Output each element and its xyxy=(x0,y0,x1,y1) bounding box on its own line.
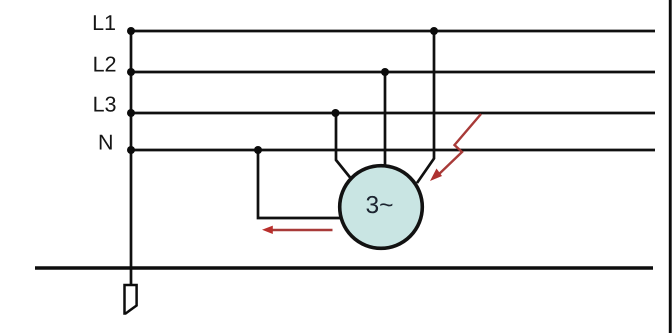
junction dot bus-N xyxy=(127,146,135,154)
label L3 xyxy=(94,96,115,111)
wire N neutral line xyxy=(131,149,655,152)
junction dot L3 tap xyxy=(332,109,340,117)
label L1 xyxy=(94,15,115,30)
junction dot L1 tap xyxy=(430,27,438,35)
fault current return arrow xyxy=(272,229,333,232)
wire L3 drop to motor xyxy=(336,113,351,178)
ground line xyxy=(35,266,653,269)
earth electrode xyxy=(125,285,137,314)
junction dot bus-L2 xyxy=(127,68,135,76)
motor label 3~ xyxy=(366,196,392,213)
label N xyxy=(100,135,112,150)
junction dot bus-L1 xyxy=(127,27,135,35)
wire L2 phase line xyxy=(131,71,655,74)
wire L1 drop to motor xyxy=(417,31,434,183)
junction dot L2 tap xyxy=(381,68,389,76)
wire L2 drop to motor xyxy=(384,72,387,167)
junction dot N tap xyxy=(254,146,262,154)
wire N drop and run to motor xyxy=(258,150,342,218)
motor M1 three-phase xyxy=(340,166,423,249)
wire L3 phase line xyxy=(131,112,655,115)
wire L1 phase line xyxy=(131,30,655,33)
return arrowhead xyxy=(262,226,273,234)
fault lightning arrow to motor xyxy=(437,114,481,176)
fault arrowhead xyxy=(430,169,442,182)
wire PEN bus vertical to earth xyxy=(130,31,133,285)
label L2 xyxy=(94,56,115,71)
junction dot bus-L3 xyxy=(127,109,135,117)
